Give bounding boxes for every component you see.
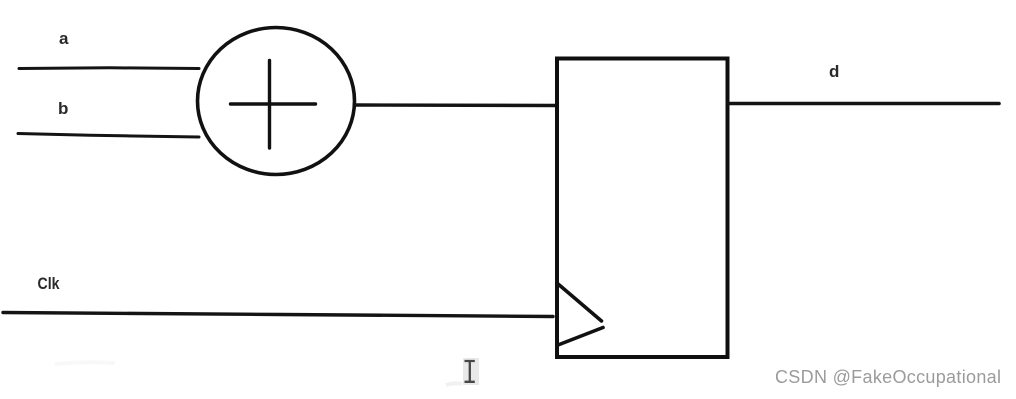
wire d — [728, 102, 999, 106]
clock edge triangle — [558, 284, 604, 346]
wire adder to register — [356, 103, 556, 107]
svg-text:a: a — [59, 29, 69, 48]
svg-text:CSDN @FakeOccupational: CSDN @FakeOccupational — [775, 367, 1001, 387]
wire b — [18, 134, 199, 138]
faint smudge — [446, 383, 462, 385]
svg-text:d: d — [829, 62, 839, 81]
text cursor (I-beam) — [463, 358, 479, 385]
svg-text:b: b — [58, 99, 68, 118]
svg-text:Clk: Clk — [38, 275, 61, 293]
adder U1 (summing junction) — [198, 28, 355, 175]
register U2 (D flip-flop box) — [557, 59, 728, 358]
faint smudge 2 — [55, 362, 115, 364]
wire Clk — [3, 313, 553, 317]
wire a — [19, 66, 199, 70]
